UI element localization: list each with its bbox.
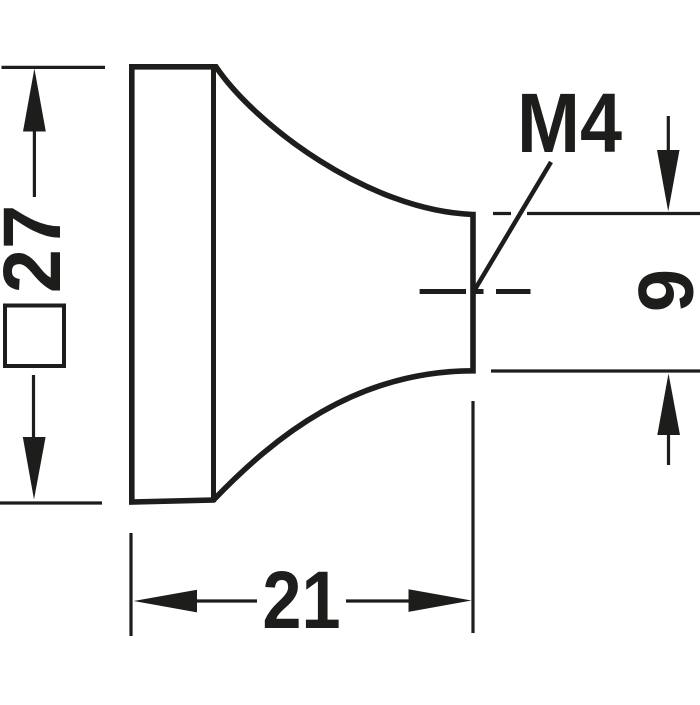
extension line left (21) bbox=[129, 533, 132, 636]
square symbol bbox=[5, 306, 64, 367]
arrow up (27) bbox=[23, 69, 46, 132]
dimension 9 top line bbox=[527, 212, 700, 215]
dimension line lower segment (27) bbox=[32, 375, 35, 442]
centerline dash middle bbox=[472, 289, 484, 294]
knob neck line bbox=[211, 67, 216, 502]
svg-text:27: 27 bbox=[0, 205, 78, 293]
dimension line left segment (21) bbox=[194, 599, 257, 602]
extension line right (21) bbox=[471, 401, 474, 633]
knob outline bbox=[132, 67, 473, 502]
svg-text:9: 9 bbox=[622, 269, 700, 312]
extension line top (27) bbox=[2, 66, 106, 69]
svg-text:21: 21 bbox=[262, 555, 340, 646]
leader line M4 bbox=[474, 162, 551, 291]
dimension 9 bottom line bbox=[491, 369, 700, 372]
centerline dash left bbox=[420, 289, 466, 294]
dimension 9 top dash bbox=[493, 212, 511, 215]
dimension line upper segment (27) bbox=[33, 128, 36, 197]
arrow right (21) bbox=[409, 589, 472, 612]
dimension line right segment (21) bbox=[346, 599, 412, 602]
centerline dash right bbox=[496, 289, 531, 294]
arrow down (9) tail bbox=[667, 116, 670, 152]
arrow down (27) bbox=[23, 437, 46, 500]
svg-text:M4: M4 bbox=[517, 76, 623, 170]
extension line bottom (27) bbox=[0, 501, 102, 504]
arrow down (9) bbox=[657, 150, 680, 212]
arrow left (21) bbox=[134, 590, 197, 613]
arrow up (9) bbox=[657, 374, 680, 436]
arrow up (9) tail bbox=[667, 432, 670, 465]
